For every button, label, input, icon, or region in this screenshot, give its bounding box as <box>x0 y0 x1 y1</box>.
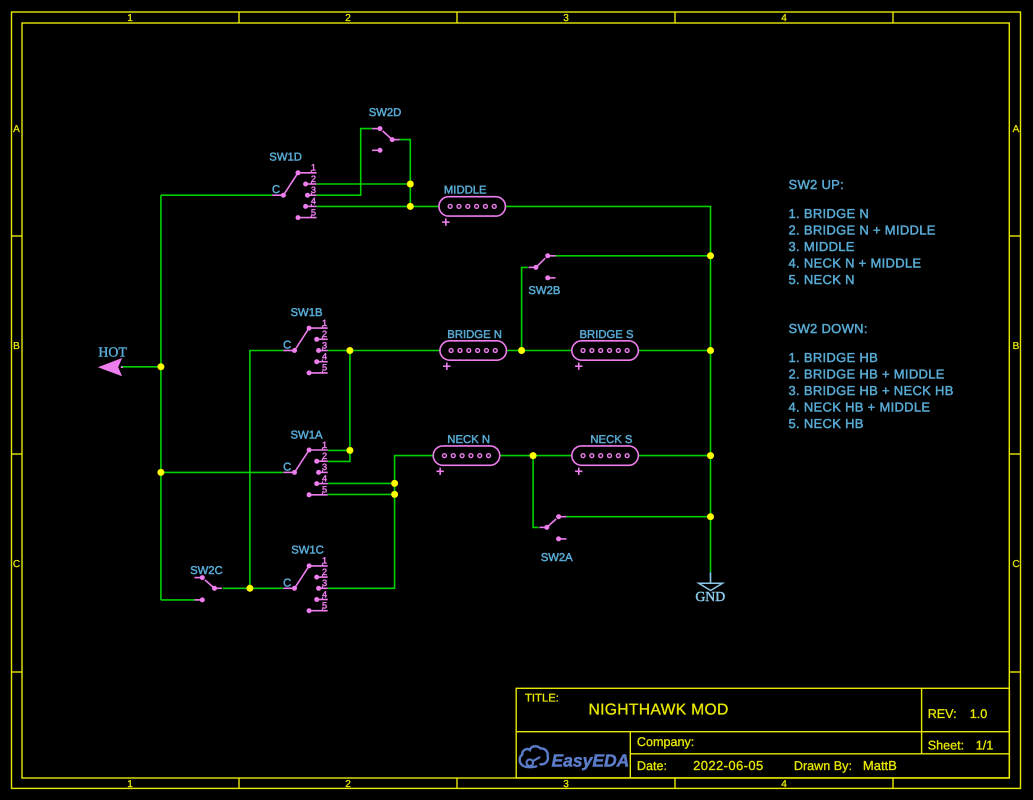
switch SW2C (SPDT) <box>194 575 222 602</box>
wire SW2B common down to BRIDGE net <box>522 267 528 350</box>
ruler row letters <box>13 124 1020 570</box>
wire SW2D common down <box>400 140 411 207</box>
svg-text:2022-06-05: 2022-06-05 <box>693 758 764 773</box>
svg-text:HOT: HOT <box>98 344 127 359</box>
svg-text:1: 1 <box>322 440 327 450</box>
svg-text:Company:: Company: <box>637 735 694 749</box>
junction bus NECK S <box>707 452 714 459</box>
svg-text:5. NECK HB: 5. NECK HB <box>789 416 864 431</box>
wire BRIDGE S to bus <box>638 350 710 352</box>
svg-text:3: 3 <box>322 462 327 472</box>
wire SW1B common feed <box>250 351 283 589</box>
svg-text:4: 4 <box>311 196 316 206</box>
svg-text:SW1A: SW1A <box>291 429 323 441</box>
switch SW1D (1P5T rotary) <box>272 163 316 221</box>
junction SW1A pin5 <box>391 491 398 498</box>
pickup NECK S (single coil) <box>572 446 639 475</box>
wire main HOT vertical bus <box>160 195 162 600</box>
svg-text:4: 4 <box>322 352 327 362</box>
svg-text:3. BRIDGE HB + NECK HB: 3. BRIDGE HB + NECK HB <box>789 383 954 398</box>
svg-text:1: 1 <box>311 163 316 173</box>
svg-text:BRIDGE S: BRIDGE S <box>580 329 634 341</box>
ruler column numbers <box>127 13 787 790</box>
junction bus BRIDGE S <box>707 347 714 354</box>
svg-text:5: 5 <box>322 363 327 373</box>
svg-text:2. BRIDGE HB + MIDDLE: 2. BRIDGE HB + MIDDLE <box>789 366 945 381</box>
junction SW2A / NECK net <box>530 452 537 459</box>
svg-text:3: 3 <box>311 185 316 195</box>
svg-text:C: C <box>1012 559 1019 570</box>
wire MIDDLE to ground bus <box>505 206 710 572</box>
wire SW1A pin4 to junction <box>328 482 395 484</box>
svg-text:SW2 DOWN:: SW2 DOWN: <box>789 321 868 336</box>
junction HOT node <box>157 363 164 370</box>
svg-text:2: 2 <box>322 329 327 339</box>
svg-text:SW2C: SW2C <box>190 565 223 577</box>
ground GND symbol <box>699 572 723 590</box>
svg-text:SW1C: SW1C <box>291 545 324 557</box>
svg-text:NIGHTHAWK MOD: NIGHTHAWK MOD <box>589 701 729 718</box>
svg-text:NECK N: NECK N <box>447 434 490 446</box>
junction SW2B / BRIDGE net <box>518 347 525 354</box>
svg-text:5. NECK N: 5. NECK N <box>789 272 855 287</box>
svg-text:1/1: 1/1 <box>976 739 994 753</box>
wire SW1B pin3 to BRIDGE N <box>328 350 440 352</box>
pickup BRIDGE N (single coil) <box>440 341 507 370</box>
wire SW1D pin4 to MIDDLE <box>317 205 439 207</box>
svg-text:SW1D: SW1D <box>269 152 302 164</box>
junction SW1B pin3 / BRIDGE N <box>346 347 353 354</box>
junction SW1A pin4 <box>391 480 398 487</box>
svg-text:2. BRIDGE N + MIDDLE: 2. BRIDGE N + MIDDLE <box>789 222 936 237</box>
svg-text:1: 1 <box>127 13 133 24</box>
svg-text:B: B <box>13 341 20 352</box>
svg-text:C: C <box>13 559 20 570</box>
svg-text:3: 3 <box>322 340 327 350</box>
svg-text:4: 4 <box>781 779 787 790</box>
svg-text:Sheet:: Sheet: <box>928 739 964 753</box>
svg-text:4: 4 <box>322 589 327 599</box>
wire NECK N to SW1C pin3 <box>328 456 434 589</box>
svg-text:SW2A: SW2A <box>541 552 573 564</box>
pickup MIDDLE (single coil) <box>439 197 506 226</box>
junction bus SW2A <box>707 513 714 520</box>
wire NECK net to SW2A common <box>533 456 539 528</box>
svg-text:GND: GND <box>695 589 725 604</box>
svg-text:C: C <box>283 340 291 352</box>
wire SW1A common feed <box>161 471 283 473</box>
wire SW1D pin2 to junction <box>317 183 411 185</box>
svg-text:5: 5 <box>311 207 316 217</box>
junction SW1A common node <box>157 469 164 476</box>
wire SW1A pin1 stub <box>328 449 350 451</box>
svg-text:SW2B: SW2B <box>528 285 560 297</box>
svg-text:A: A <box>1013 124 1020 135</box>
net flag HOT arrow <box>100 359 121 375</box>
title block frame <box>516 688 1009 778</box>
svg-text:EasyEDA: EasyEDA <box>552 751 630 771</box>
svg-text:C: C <box>283 577 291 589</box>
svg-text:2: 2 <box>322 567 327 577</box>
svg-text:Drawn By:: Drawn By: <box>794 759 852 773</box>
wire SW1A pin5 to junction <box>328 493 395 495</box>
svg-text:2: 2 <box>311 174 316 184</box>
EasyEDA logo cloud <box>520 746 548 767</box>
wire SW1D pin3 to SW2D throw <box>317 129 372 196</box>
switch SW2B (SPDT) <box>529 253 556 280</box>
svg-text:5: 5 <box>322 601 327 611</box>
svg-text:SW1B: SW1B <box>291 307 323 319</box>
svg-text:REV:: REV: <box>928 707 957 721</box>
switch SW1A (1P5T rotary) <box>283 440 327 498</box>
switch SW1B (1P5T rotary) <box>283 318 327 376</box>
wire junction to SW1A pin2 <box>328 351 350 462</box>
svg-text:4. NECK HB + MIDDLE: 4. NECK HB + MIDDLE <box>789 400 931 415</box>
svg-text:3: 3 <box>563 13 569 24</box>
svg-text:1. BRIDGE HB: 1. BRIDGE HB <box>789 350 879 365</box>
pickup NECK N (single coil) <box>433 446 500 475</box>
switch SW2D (SPDT) <box>372 126 400 153</box>
junction bus SW2B <box>707 252 714 259</box>
svg-text:4. NECK N + MIDDLE: 4. NECK N + MIDDLE <box>789 256 922 271</box>
svg-text:3: 3 <box>322 578 327 588</box>
svg-text:NECK S: NECK S <box>590 434 633 446</box>
wire SW1D common feed <box>161 194 272 196</box>
svg-text:B: B <box>1013 341 1020 352</box>
svg-text:SW2D: SW2D <box>369 107 402 119</box>
svg-text:C: C <box>272 184 280 196</box>
svg-text:A: A <box>13 124 20 135</box>
svg-text:4: 4 <box>322 473 327 483</box>
switch SW1C (1P5T rotary) <box>283 556 327 614</box>
svg-text:2: 2 <box>345 13 351 24</box>
svg-text:TITLE:: TITLE: <box>525 693 559 705</box>
note SW2 UP list <box>789 177 936 287</box>
svg-text:3: 3 <box>563 779 569 790</box>
svg-text:1: 1 <box>322 318 327 328</box>
wire HOT to SW2C throw <box>161 599 196 601</box>
svg-text:1: 1 <box>322 556 327 566</box>
title block text Date row <box>637 758 897 773</box>
wire HOT stub <box>121 366 161 368</box>
svg-text:MattB: MattB <box>863 758 897 773</box>
wire NECK S to bus <box>638 455 710 457</box>
wire SW2C common to SW1C common <box>223 587 284 589</box>
junction SW2C / SW1C common <box>246 585 253 592</box>
svg-text:5: 5 <box>322 485 327 495</box>
switch SW2A (SPDT) <box>539 514 566 541</box>
wire BRIDGE N to BRIDGE S <box>506 350 571 352</box>
svg-text:1. BRIDGE N: 1. BRIDGE N <box>789 206 870 221</box>
wire NECK N to NECK S <box>500 455 572 457</box>
junction SW1D pin4 / MIDDLE <box>407 203 414 210</box>
pickup BRIDGE S (single coil) <box>572 341 639 370</box>
svg-text:3. MIDDLE: 3. MIDDLE <box>789 239 855 254</box>
svg-text:SW2 UP:: SW2 UP: <box>789 177 845 192</box>
junction SW1A pin1 <box>346 447 353 454</box>
wire SW2A throw to bus <box>565 516 711 518</box>
svg-text:C: C <box>283 461 291 473</box>
svg-text:2: 2 <box>345 779 351 790</box>
svg-text:4: 4 <box>781 13 787 24</box>
svg-text:2: 2 <box>322 451 327 461</box>
wire SW2B throw to bus <box>551 255 710 257</box>
svg-text:1.0: 1.0 <box>970 707 988 721</box>
svg-text:BRIDGE N: BRIDGE N <box>447 329 502 341</box>
note SW2 DOWN list <box>789 321 954 431</box>
svg-text:Date:: Date: <box>637 759 667 773</box>
junction SW2D-SW1D pin2 <box>407 181 414 188</box>
svg-text:1: 1 <box>127 779 133 790</box>
svg-text:MIDDLE: MIDDLE <box>444 185 487 197</box>
